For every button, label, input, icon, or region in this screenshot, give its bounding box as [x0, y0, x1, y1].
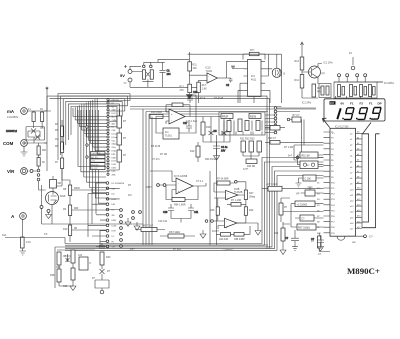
- diode enclosure box: [26, 127, 45, 141]
- svg-text:R36: R36: [210, 209, 215, 212]
- ground below shunt: [20, 251, 27, 255]
- svg-text:ADJ: ADJ: [112, 122, 116, 125]
- ground lc1: [125, 218, 131, 226]
- svg-text:R44: R44: [274, 232, 279, 235]
- svg-text:0.01: 0.01: [26, 241, 31, 244]
- svg-text:RST 10kΩ: RST 10kΩ: [169, 231, 180, 234]
- fuse F1: [28, 108, 35, 122]
- capacitor C10: [163, 204, 174, 215]
- svg-text:6V: 6V: [341, 102, 345, 106]
- svg-text:R? 04.98R: R? 04.98R: [217, 178, 229, 181]
- svg-text:R10: R10: [63, 228, 68, 231]
- AC/DC section resistors: [279, 198, 290, 222]
- svg-text:2Meg: 2Meg: [249, 196, 256, 199]
- switch contact: [37, 178, 40, 181]
- resistor RST h1: [135, 225, 165, 232]
- ground below COM: [21, 147, 28, 157]
- svg-text:C10 C11: C10 C11: [158, 220, 168, 223]
- diode D5: [209, 128, 218, 138]
- svg-text:10K: 10K: [193, 67, 198, 70]
- opamp IC2B: [214, 181, 246, 202]
- wire A bus: [5, 238, 65, 244]
- display LCD: [324, 96, 385, 121]
- wire Vohm to contacts: [28, 170, 38, 172]
- resistor R6: [55, 142, 64, 153]
- contact circle x: [288, 155, 324, 159]
- cap C23: [311, 235, 324, 251]
- svg-text:DC 4/2N4/DE: DC 4/2N4/DE: [112, 183, 125, 185]
- wire R11 top tick: [188, 52, 192, 62]
- resistor R45: [311, 233, 330, 252]
- trimmer VR1: [296, 187, 324, 196]
- trim cap VC2: [350, 85, 357, 97]
- ground lc2: [134, 222, 140, 230]
- wire A to shunt: [22, 220, 24, 252]
- capacitor CAC 1.0uF: [262, 183, 324, 191]
- svg-text:1M: 1M: [55, 138, 58, 141]
- svg-text:IC2C?: IC2C?: [212, 230, 219, 233]
- switch contacts lc: [132, 211, 142, 220]
- opamp IC2C: [205, 218, 258, 233]
- wire diode bar: [196, 117, 230, 143]
- resistor R9: [63, 205, 72, 216]
- svg-text:O5m: O5m: [112, 147, 117, 149]
- svg-text:DMV: DMV: [112, 220, 117, 222]
- crystal cluster R51: [300, 152, 318, 158]
- svg-text:104: 104: [167, 73, 172, 76]
- dp1: [342, 118, 344, 120]
- terminal A: [11, 213, 26, 220]
- wire harness drops: [109, 94, 130, 127]
- svg-text:DCB: DCB: [112, 164, 117, 166]
- resistor R38: [216, 226, 250, 241]
- svg-text:R??: R??: [250, 49, 255, 52]
- resistor R12: [180, 84, 192, 92]
- diode D6: [222, 128, 231, 138]
- wire R11 R12 node: [189, 71, 207, 84]
- capacitor box C19: [295, 215, 324, 221]
- transformer T1: [44, 87, 48, 171]
- box R near display: [287, 114, 304, 122]
- IC3 4011 DIP: [244, 60, 266, 97]
- svg-text:R38: R38: [50, 274, 55, 277]
- svg-text:C 100: C 100: [305, 179, 312, 181]
- svg-text:R64 1.86R: R64 1.86R: [174, 204, 186, 207]
- trim cap VC3: [360, 85, 367, 97]
- resistor R16: [150, 111, 163, 119]
- svg-text:9R: 9R: [74, 227, 77, 230]
- svg-text:TL062B: TL062B: [234, 191, 243, 194]
- capacitor box C18: [299, 175, 324, 183]
- resistor R44: [274, 222, 290, 248]
- svg-text:R18: R18: [206, 126, 211, 129]
- junction column J1: [274, 107, 277, 134]
- svg-text:R42: R42: [249, 209, 254, 212]
- svg-text:C10: C10: [163, 211, 168, 214]
- wire long rails to right: [47, 96, 270, 249]
- central section top rails: [130, 107, 316, 246]
- ground below FET: [46, 213, 52, 219]
- battery BT1 9V: [120, 65, 132, 83]
- section border center: [100, 171, 268, 245]
- relay switch body: [142, 70, 153, 87]
- IC1 left pin labels: [317, 132, 336, 235]
- svg-text:+C? 1.0uF: +C? 1.0uF: [266, 183, 278, 186]
- IC1 right pins: [356, 133, 363, 228]
- svg-text:DL1 B?: DL1 B?: [91, 168, 97, 170]
- svg-text:04A 04R: 04A 04R: [219, 238, 228, 241]
- svg-text:TL061: TL061: [206, 70, 213, 73]
- svg-text:C? 47u: C? 47u: [152, 158, 160, 161]
- wire buzzer and IC3 loop: [189, 54, 281, 103]
- ground c22: [292, 247, 298, 251]
- svg-text:10A: 10A: [2, 234, 7, 237]
- wire fet bus: [56, 169, 63, 187]
- resistor RH2: [117, 133, 127, 145]
- contact below FET 2: [47, 210, 50, 213]
- right pin bus vertical: [361, 133, 363, 228]
- svg-text:R? 104: R? 104: [173, 248, 181, 251]
- resistor R22 top of IC3: [243, 49, 265, 60]
- capacitor C1 104: [160, 62, 172, 82]
- capacitor C2: [226, 78, 232, 87]
- resistor R5: [55, 126, 64, 137]
- svg-text:R20 C?: R20 C?: [268, 137, 277, 140]
- digit 9a: [344, 108, 354, 120]
- resistor R13: [295, 57, 304, 70]
- ground below R12: [186, 93, 192, 99]
- box ICx TL061: [156, 117, 196, 140]
- svg-text:M890C+: M890C+: [347, 266, 380, 276]
- svg-text:9018: 9018: [60, 195, 66, 198]
- dip footprint block: [219, 112, 265, 135]
- wire Q1: [302, 48, 322, 98]
- svg-text:R16 350R: R16 350R: [151, 111, 162, 114]
- svg-text:LO: LO: [112, 236, 115, 238]
- IC1 right pin labels: [350, 132, 361, 231]
- wire long mid: [282, 211, 324, 213]
- wire diodes: [24, 128, 47, 143]
- svg-text:16V: 16V: [221, 150, 226, 153]
- svg-text:mA: mA: [7, 109, 15, 114]
- resistor R9M: [50, 180, 61, 189]
- svg-text:-C?-: -C?-: [369, 236, 374, 239]
- trimmer enclosure: [334, 82, 377, 98]
- svg-text:-: -: [178, 182, 179, 185]
- wire cap c22 top: [294, 230, 296, 233]
- resistor R43: [227, 199, 246, 206]
- switch contact: [37, 174, 40, 177]
- capacitor C11: [188, 204, 199, 215]
- resistor R21 h: [217, 178, 230, 186]
- svg-text:90R: 90R: [74, 207, 79, 210]
- svg-text:DCV: DCV: [112, 113, 117, 115]
- box R near junction: [265, 126, 285, 131]
- svg-text:C11: C11: [194, 211, 199, 214]
- svg-text:F2: F2: [360, 102, 364, 106]
- svg-text:R? 1M: R? 1M: [160, 153, 167, 156]
- wire opamp outputs: [171, 183, 206, 223]
- dp2: [356, 118, 358, 120]
- svg-text:1M: 1M: [128, 194, 131, 197]
- resistor R3 90: [37, 158, 45, 167]
- svg-text:C? 47uF: C? 47uF: [196, 97, 206, 100]
- svg-text:C/T?: C/T?: [243, 168, 249, 171]
- svg-text:C? 0.1: C? 0.1: [196, 180, 204, 183]
- wire FET vertical: [39, 176, 144, 224]
- resistor R1: [40, 108, 44, 122]
- svg-text:AU_BO: AU_BO: [91, 156, 98, 159]
- box left of trimmers: [319, 84, 331, 98]
- digit 1: [337, 108, 340, 119]
- svg-text:IC1 2Pin: IC1 2Pin: [302, 102, 312, 105]
- svg-text:IC1 DiPin: IC1 DiPin: [384, 82, 395, 85]
- text labels scatter 2: [44, 97, 357, 288]
- dp3: [370, 118, 372, 120]
- boxed net labels: [91, 152, 106, 171]
- capacitor C17: [183, 122, 192, 132]
- contact below FET: [40, 206, 43, 209]
- cluster R31-R33: [240, 138, 262, 169]
- transistor Q1: [309, 64, 326, 81]
- svg-text:F1: F1: [350, 102, 354, 106]
- svg-text:R? C?: R? C?: [293, 114, 300, 117]
- resistor R42b vertical: [237, 200, 254, 224]
- svg-text:D5 4148: D5 4148: [151, 145, 161, 148]
- svg-text:47K: 47K: [180, 89, 185, 92]
- wire pair left column: [302, 122, 305, 158]
- wires display top: [336, 96, 372, 99]
- wire battery bottom rail: [130, 82, 198, 87]
- bottom-left block: [50, 247, 100, 291]
- resistor R20 h: [265, 137, 324, 144]
- terminal mA: [7, 108, 27, 119]
- shunt R 0.01: [21, 237, 32, 248]
- capacitor C4: [213, 142, 228, 153]
- resistor R14: [295, 75, 304, 89]
- ground xt: [296, 183, 302, 187]
- resistor R42a vertical: [244, 190, 255, 200]
- svg-text:03B 04BP: 03B 04BP: [234, 238, 245, 241]
- svg-text:DD: DD: [112, 194, 116, 196]
- rotary switch contact column: [106, 98, 125, 248]
- switch contact: [37, 169, 40, 172]
- label IC1 1Pin: [324, 62, 334, 65]
- svg-text:COM: COM: [3, 141, 14, 146]
- wire crystal loop: [294, 145, 324, 165]
- bottom-left block 2: [95, 243, 111, 294]
- ground center2: [255, 225, 261, 236]
- svg-text:R31 R32 R33: R31 R32 R33: [240, 138, 255, 141]
- far right vertical wire: [377, 81, 383, 83]
- svg-text:RP?: RP?: [130, 248, 135, 251]
- trim cap VC4: [369, 85, 376, 97]
- trim cap VC1: [338, 85, 345, 97]
- capacitor C16: [187, 91, 198, 117]
- opamp IC7A CA358: [150, 171, 206, 199]
- diode D1: [6, 129, 40, 134]
- svg-text:PR2P: PR2P: [222, 116, 229, 119]
- svg-text:RST 100kΩ: RST 100kΩ: [298, 228, 310, 230]
- trimmer rail: [334, 77, 383, 82]
- wire battery top rail: [130, 59, 189, 71]
- IC1 left pins: [324, 132, 331, 233]
- resistor R19: [190, 142, 200, 162]
- svg-text:2M: 2M: [112, 215, 115, 217]
- svg-text:+C 100KΩ: +C 100KΩ: [297, 204, 308, 206]
- wire mA to fuse: [28, 111, 48, 128]
- trimmer R13: [197, 80, 207, 103]
- ground right2: [280, 248, 286, 255]
- trimmer contact row: [338, 74, 367, 77]
- rotary switch contact column 2: [120, 209, 123, 248]
- wire fan verticals: [73, 98, 97, 154]
- arrow right to display (hollow): [362, 123, 380, 228]
- svg-text:IC1 ICL7106: IC1 ICL7106: [335, 125, 349, 128]
- svg-text:9=?: 9=?: [288, 155, 293, 158]
- svg-text:4011: 4011: [251, 79, 257, 82]
- resistor RH3: [117, 150, 127, 162]
- op-amp IC4: [163, 109, 196, 124]
- capacitor C22: [285, 233, 299, 247]
- IC1 ICL7106 DIP: [330, 128, 356, 240]
- wire harness nested loops: [58, 94, 130, 161]
- resistor R10: [63, 225, 72, 236]
- arrow display to IC1: [323, 118, 330, 127]
- svg-text:R30 1N4007: R30 1N4007: [205, 158, 219, 161]
- IC1 bottom wire: [347, 235, 364, 237]
- wires to junction column: [265, 108, 316, 133]
- svg-text:R19: R19: [190, 150, 195, 153]
- wire resistor chain: [38, 143, 40, 169]
- resistor RST h2: [160, 231, 195, 238]
- svg-text:DO: DO: [330, 101, 334, 105]
- svg-text:F1: F1: [369, 102, 373, 106]
- svg-text:R38: R38: [63, 285, 68, 288]
- resistor R36 vertical: [210, 198, 219, 221]
- resistor R11: [188, 62, 198, 71]
- digit 9c: [371, 108, 381, 120]
- svg-text:900R: 900R: [74, 187, 80, 190]
- svg-text:D7B: D7B: [112, 231, 117, 233]
- svg-text:R14: R14: [295, 79, 300, 82]
- DO black box: [330, 101, 336, 104]
- wire mA node up: [44, 96, 51, 111]
- svg-text:R39: R39: [56, 266, 61, 269]
- wire contact fan: [73, 117, 107, 154]
- diode D2: [28, 135, 40, 140]
- terminal COM: [3, 140, 27, 147]
- svg-text:9V: 9V: [120, 73, 125, 78]
- label IC1 2Pin: [302, 102, 312, 105]
- svg-text:IC1 1Pin: IC1 1Pin: [324, 62, 334, 65]
- digit 9b: [358, 108, 368, 120]
- resistor R2 900: [37, 146, 47, 155]
- svg-text:1N4007x2: 1N4007x2: [6, 130, 18, 133]
- wire box edge extra: [151, 117, 153, 246]
- svg-text:C16: C16: [193, 91, 198, 94]
- FET Q3: [46, 192, 66, 205]
- wire resistor ladder: [62, 120, 70, 242]
- wire RH column: [109, 109, 119, 170]
- resistor R17 above opamp: [166, 103, 190, 117]
- svg-text:DCM: DCM: [112, 225, 117, 227]
- wire opamp to IC3: [227, 62, 244, 78]
- wire staircase to contacts: [78, 110, 106, 203]
- svg-text:R64?: R64?: [146, 186, 152, 189]
- svg-text:V/R: V/R: [7, 169, 15, 174]
- wire lower contact feeders: [72, 183, 120, 247]
- svg-text:-: -: [171, 120, 172, 123]
- resistor R7: [55, 158, 64, 169]
- svg-text:9M: 9M: [58, 182, 61, 185]
- wire bottom bus bundle: [65, 158, 324, 251]
- resistor RST 100k: [291, 224, 324, 230]
- svg-text:C16 1.5uF: C16 1.5uF: [186, 120, 198, 123]
- resistor RC 100k: [291, 201, 324, 227]
- switch SW1 contacts: [143, 62, 165, 67]
- svg-text:1.8K: 1.8K: [202, 87, 207, 90]
- svg-text:IC7A CA358: IC7A CA358: [174, 175, 188, 178]
- buzzer B1: [272, 68, 285, 77]
- terminal V/ohm: [7, 168, 33, 175]
- text labels scatter: [128, 120, 249, 223]
- svg-text:DM: DM: [112, 204, 116, 206]
- svg-text:DCA: DCA: [112, 150, 117, 153]
- svg-text:0.2A/250V: 0.2A/250V: [7, 116, 19, 119]
- resistor RH1: [117, 116, 127, 128]
- svg-text:900: 900: [42, 149, 47, 152]
- svg-text:D? 4148: D? 4148: [214, 97, 224, 100]
- svg-text:R51 1M: R51 1M: [302, 156, 310, 158]
- svg-text:104: 104: [78, 254, 83, 257]
- svg-text:R34 8R: R34 8R: [247, 165, 255, 168]
- svg-text:R13: R13: [295, 60, 300, 63]
- footprint extra hatch: [224, 121, 262, 132]
- resistor R15: [312, 84, 322, 97]
- svg-text:VR: VR: [296, 193, 300, 196]
- svg-text:R37B: R37B: [250, 116, 256, 119]
- harness tap contacts: [86, 126, 88, 158]
- crystal XT 4MHz: [300, 161, 318, 169]
- resistor R8: [63, 185, 72, 196]
- ground center1: [214, 153, 220, 161]
- svg-text:TL061: TL061: [165, 135, 172, 138]
- svg-text:R? 1.13R: R? 1.13R: [231, 199, 241, 202]
- ground lc3: [200, 230, 206, 238]
- svg-text:DP: DP: [378, 102, 382, 106]
- svg-text:--1 pwhm?: --1 pwhm?: [222, 249, 234, 252]
- resistor R64: [166, 185, 198, 207]
- svg-text:R? 1.0M: R? 1.0M: [284, 146, 293, 149]
- bottom right contact: [364, 235, 374, 239]
- opamp IC10 TL061: [206, 67, 227, 84]
- svg-text:R40: R40: [106, 256, 111, 259]
- resistor R18 vertical: [201, 117, 211, 143]
- V+ arrow top: [301, 42, 304, 48]
- isolated contact P1: [349, 52, 355, 70]
